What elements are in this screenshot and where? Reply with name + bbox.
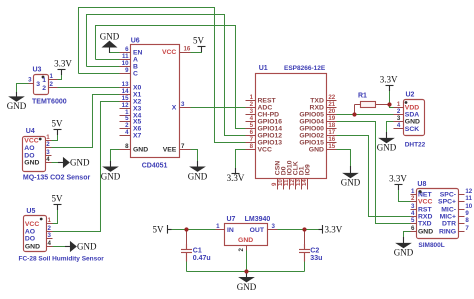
U8 pin 4 RXD xyxy=(410,215,416,217)
wire 5V to LM3940 IN xyxy=(171,228,215,230)
svg-text:GPIO15: GPIO15 xyxy=(299,139,324,146)
svg-text:3: 3 xyxy=(272,223,276,230)
ground below LM3940 xyxy=(237,271,257,292)
svg-text:3: 3 xyxy=(46,149,50,156)
ground below SIM800L xyxy=(394,237,414,258)
wire FC-28 GND xyxy=(52,245,71,247)
wire ground rail xyxy=(186,270,304,272)
svg-text:IO9: IO9 xyxy=(304,164,311,175)
wire EN to GND xyxy=(109,51,119,53)
svg-text:5: 5 xyxy=(250,122,254,129)
junction C1 to 5V rail xyxy=(184,227,188,231)
junction R1 to 3.3V net xyxy=(387,102,391,106)
wire C2 top lead xyxy=(303,229,305,246)
sensor U5 FC-28 xyxy=(23,215,46,251)
svg-text:AO: AO xyxy=(24,145,34,152)
wire LM3940 OUT to 3.3V xyxy=(277,228,318,230)
svg-text:U7: U7 xyxy=(227,216,236,223)
svg-text:GND: GND xyxy=(405,119,420,126)
svg-text:U8: U8 xyxy=(417,181,426,188)
svg-text:8: 8 xyxy=(465,217,469,224)
svg-text:22: 22 xyxy=(328,94,335,101)
svg-text:3.3V: 3.3V xyxy=(380,75,398,85)
svg-text:1: 1 xyxy=(50,73,54,80)
svg-text:SCK: SCK xyxy=(405,126,419,133)
power 3.3V above R1 xyxy=(380,75,398,91)
svg-text:GPIO00: GPIO00 xyxy=(299,125,324,132)
ground right of MQ-135 xyxy=(58,158,90,168)
svg-text:2: 2 xyxy=(397,108,401,115)
svg-text:5: 5 xyxy=(125,115,129,122)
junction GND rail xyxy=(244,269,248,273)
U1 pin 20 GPIO05 xyxy=(326,113,336,115)
U1 pin 21 RXD xyxy=(326,106,336,108)
svg-text:SDA: SDA xyxy=(405,112,419,119)
svg-text:RXD: RXD xyxy=(310,104,324,111)
svg-text:4: 4 xyxy=(48,240,52,247)
svg-text:4: 4 xyxy=(250,115,254,122)
svg-text:TXD: TXD xyxy=(418,221,432,228)
U6 pin 7 VEE xyxy=(179,148,190,150)
U8 pin 3 RST xyxy=(410,208,416,210)
wire CD4051 VCC to 5V xyxy=(190,46,201,52)
U1 pin 12 CLK xyxy=(294,178,296,189)
svg-text:VCC: VCC xyxy=(418,199,432,206)
svg-text:3: 3 xyxy=(28,77,32,84)
svg-text:13: 13 xyxy=(122,81,129,88)
svg-text:OUT: OUT xyxy=(250,227,265,234)
resistor R1 xyxy=(360,101,375,107)
wire CD4051 GND pin8 xyxy=(110,149,119,161)
capacitor C2 xyxy=(299,244,310,262)
svg-text:X0: X0 xyxy=(133,84,142,91)
wire MQ-135 AO to X1 xyxy=(51,94,119,147)
svg-text:12: 12 xyxy=(465,188,472,195)
svg-text:2: 2 xyxy=(125,122,129,129)
svg-text:3.3V: 3.3V xyxy=(227,173,245,183)
svg-text:C2: C2 xyxy=(310,248,319,255)
svg-text:X3: X3 xyxy=(133,105,142,112)
U1 pin 7 GPIO13 xyxy=(245,141,255,143)
svg-text:5V: 5V xyxy=(193,36,205,46)
U8 pin 6 GND xyxy=(410,230,416,232)
svg-text:7: 7 xyxy=(250,136,254,143)
svg-text:5V: 5V xyxy=(52,119,64,129)
U6 pin 4 X7 xyxy=(119,134,130,136)
svg-text:REST: REST xyxy=(258,97,277,104)
svg-text:CD4051: CD4051 xyxy=(142,162,168,169)
svg-text:X: X xyxy=(172,104,177,111)
U1 pin 22 TXD xyxy=(326,99,336,101)
svg-text:3: 3 xyxy=(411,203,415,210)
svg-text:U5: U5 xyxy=(26,208,35,215)
svg-text:TEMT6000: TEMT6000 xyxy=(32,98,67,105)
U1 pin 19 GPIO04 xyxy=(326,120,336,122)
U1 pin 18 GPIO00 xyxy=(326,127,336,129)
wire A pin segment xyxy=(95,58,119,60)
U1 pin 5 GPIO14 xyxy=(245,127,255,129)
power 3.3V below ESP VCC xyxy=(227,168,245,183)
U6 pin 5 X5 xyxy=(119,120,130,122)
ground below CD4051 VEE xyxy=(188,161,208,181)
wire CD4051 VEE pin7 xyxy=(190,149,197,161)
U1 pin 6 GPIO12 xyxy=(245,134,255,136)
svg-text:VDD: VDD xyxy=(405,105,419,112)
svg-text:3: 3 xyxy=(48,232,52,239)
svg-text:1: 1 xyxy=(42,77,46,84)
junction R1 to SDA net xyxy=(352,112,356,116)
wire SIM800L GND xyxy=(403,231,410,237)
svg-text:DO: DO xyxy=(24,152,34,159)
svg-text:DTR: DTR xyxy=(442,221,456,228)
U8 pin 11 SPC+ xyxy=(458,200,464,202)
svg-text:VEE: VEE xyxy=(163,147,177,154)
module U8 SIM800L xyxy=(416,188,458,238)
svg-text:2: 2 xyxy=(48,225,52,232)
U6 pin 16 VCC xyxy=(179,51,190,53)
wire GPIO05 to DHT SDA xyxy=(336,113,393,115)
svg-text:14: 14 xyxy=(301,179,308,186)
wire TEMT6000 pin3 to GND xyxy=(16,83,28,92)
svg-text:GPIO14: GPIO14 xyxy=(258,125,283,132)
svg-text:GPIO04: GPIO04 xyxy=(299,118,324,125)
multiplexer U6 CD4051 xyxy=(130,44,179,157)
svg-text:LM3940: LM3940 xyxy=(245,216,271,223)
svg-text:C1: C1 xyxy=(193,248,202,255)
U1 pin 8 VCC xyxy=(245,148,255,150)
svg-text:1: 1 xyxy=(216,223,220,230)
svg-text:GND: GND xyxy=(418,229,433,236)
U6 pin 1 X4 xyxy=(119,114,130,116)
U6 pin 3 X xyxy=(179,106,190,108)
svg-text:2: 2 xyxy=(42,85,46,92)
power port 5V at regulator input xyxy=(153,224,172,234)
ground below ESP pin15 xyxy=(341,166,361,188)
svg-text:RING: RING xyxy=(439,229,456,236)
svg-text:11: 11 xyxy=(465,195,472,202)
svg-text:5V: 5V xyxy=(52,194,64,204)
svg-text:X5: X5 xyxy=(133,118,142,125)
U1 pin 4 GPIO16 xyxy=(245,120,255,122)
svg-text:GND: GND xyxy=(237,282,257,292)
U1 pin 3 CH-PD xyxy=(245,113,255,115)
svg-text:C: C xyxy=(133,70,138,77)
svg-text:6: 6 xyxy=(250,129,254,136)
wire C1 bottom lead xyxy=(185,261,187,271)
svg-text:GND: GND xyxy=(394,248,414,258)
svg-text:FC-28 Soil Humidity Sensor: FC-28 Soil Humidity Sensor xyxy=(19,255,105,262)
U6 pin 15 X2 xyxy=(119,100,130,102)
svg-text:U2: U2 xyxy=(406,91,415,98)
U6 pin 11 A xyxy=(119,58,130,60)
wire GPIO04 to SIM800L TXD xyxy=(336,121,410,223)
U1 pin 13 D1 xyxy=(300,178,302,189)
svg-text:2: 2 xyxy=(250,101,254,108)
svg-text:10: 10 xyxy=(465,203,472,210)
svg-text:GND: GND xyxy=(77,242,97,252)
U1 pin 14 IO9 xyxy=(306,178,308,189)
U8 pin 5 TXD xyxy=(410,222,416,224)
svg-text:IN: IN xyxy=(227,227,234,234)
svg-text:7: 7 xyxy=(181,143,185,150)
svg-text:GND: GND xyxy=(309,146,324,153)
svg-text:2: 2 xyxy=(238,248,245,252)
U1 pin 15 GND xyxy=(326,148,336,150)
svg-text:GPIO02: GPIO02 xyxy=(299,132,324,139)
wire CD4051 B to ESP GPIO12 xyxy=(86,14,245,135)
svg-text:1: 1 xyxy=(397,101,401,108)
U1 pin 2 ADC xyxy=(245,106,255,108)
svg-text:ESP8266-12E: ESP8266-12E xyxy=(284,65,326,72)
svg-text:U4: U4 xyxy=(26,128,35,135)
U8 pin 1 NET xyxy=(410,193,416,195)
power 5V above FC-28 xyxy=(52,194,64,210)
svg-text:19: 19 xyxy=(328,115,335,122)
svg-text:3: 3 xyxy=(250,108,254,115)
svg-text:VCC: VCC xyxy=(258,146,272,153)
svg-text:8: 8 xyxy=(125,143,129,150)
svg-text:18: 18 xyxy=(328,122,335,129)
svg-text:4: 4 xyxy=(397,122,401,129)
regulator U7 LM3940 xyxy=(224,223,267,245)
U8 pin 10 MIC- xyxy=(458,208,464,210)
svg-text:GND: GND xyxy=(7,101,27,111)
svg-text:TXD: TXD xyxy=(310,97,324,104)
svg-text:GND: GND xyxy=(100,32,120,42)
wire ESP GND pin15 xyxy=(336,149,350,166)
wire MQ-135 VCC to 5V xyxy=(51,129,57,140)
ground right of FC-28 xyxy=(65,242,97,252)
svg-text:GPIO16: GPIO16 xyxy=(258,118,283,125)
svg-text:4: 4 xyxy=(411,210,415,217)
U6 pin 14 X1 xyxy=(119,93,130,95)
wire FC-28 AO to X2 xyxy=(52,101,119,231)
wire ESP VCC to 3.3V xyxy=(235,149,245,173)
junction C2 to 3.3V rail xyxy=(302,227,306,231)
svg-text:SIM800L: SIM800L xyxy=(418,242,444,249)
svg-text:GND: GND xyxy=(188,171,208,181)
svg-text:20: 20 xyxy=(328,108,335,115)
power 3.3V above TEMT6000 xyxy=(54,59,72,75)
svg-text:EN: EN xyxy=(133,49,143,56)
wire TEMT6000 out to X0 xyxy=(57,86,119,88)
U1 pin 9 CSN xyxy=(276,178,278,189)
svg-text:DHT22: DHT22 xyxy=(405,142,426,149)
U1 pin 1 REST xyxy=(245,99,255,101)
wire R1 left leg down xyxy=(353,104,355,114)
sensor U2 DHT22 xyxy=(403,99,424,135)
U1 pin 16 GPIO15 xyxy=(326,141,336,143)
svg-text:1: 1 xyxy=(250,94,254,101)
U6 pin 10 B xyxy=(119,65,130,67)
U6 pin 12 X3 xyxy=(119,107,130,109)
svg-text:1: 1 xyxy=(411,188,415,195)
ground below DHT22 xyxy=(377,132,397,153)
svg-text:VCC: VCC xyxy=(24,138,38,145)
svg-text:3: 3 xyxy=(36,81,40,88)
svg-text:GPIO05: GPIO05 xyxy=(299,111,324,118)
svg-text:0.47u: 0.47u xyxy=(193,255,211,262)
U8 pin 12 SPC- xyxy=(458,193,464,195)
U6 pin 8 GND xyxy=(119,148,130,150)
svg-text:7: 7 xyxy=(465,225,469,232)
wire 3.3V to SIM800L VCC xyxy=(398,184,410,201)
U1 pin 10 D0 xyxy=(282,178,284,189)
ground below TEMT6000 xyxy=(7,92,27,111)
svg-text:GND: GND xyxy=(25,243,40,250)
svg-text:U1: U1 xyxy=(259,65,268,72)
svg-text:X1: X1 xyxy=(133,91,142,98)
svg-text:2: 2 xyxy=(46,141,50,148)
svg-text:8: 8 xyxy=(250,143,254,150)
svg-text:A: A xyxy=(133,56,138,63)
U8 pin 7 RING xyxy=(458,230,464,232)
svg-text:5V: 5V xyxy=(153,224,165,234)
module U1 ESP8266-12E xyxy=(255,73,326,178)
svg-text:15: 15 xyxy=(122,95,129,102)
U8 pin 2 VCC xyxy=(410,200,416,202)
svg-text:MIC-: MIC- xyxy=(441,207,456,214)
svg-text:1: 1 xyxy=(46,134,50,141)
svg-text:GND: GND xyxy=(133,147,148,154)
svg-text:17: 17 xyxy=(328,129,335,136)
svg-text:4: 4 xyxy=(125,129,129,136)
svg-text:GPIO12: GPIO12 xyxy=(258,132,283,139)
svg-text:21: 21 xyxy=(328,101,335,108)
svg-text:GND: GND xyxy=(377,143,397,153)
ground below CD4051 pin8 xyxy=(101,161,121,181)
U6 pin 9 C xyxy=(119,72,130,74)
svg-text:4: 4 xyxy=(46,156,50,163)
svg-text:33u: 33u xyxy=(310,255,322,262)
power 5V above MQ-135 xyxy=(52,119,64,135)
svg-text:11: 11 xyxy=(122,53,129,60)
U1 pin 11 IO10 xyxy=(288,178,290,189)
U6 pin 2 X6 xyxy=(119,127,130,129)
svg-text:10: 10 xyxy=(122,60,129,67)
svg-text:X7: X7 xyxy=(133,132,142,139)
svg-text:2: 2 xyxy=(411,195,415,202)
svg-text:5: 5 xyxy=(411,217,415,224)
wire GPIO02 to SIM800L RXD xyxy=(336,135,410,216)
svg-text:6: 6 xyxy=(411,225,415,232)
svg-text:2: 2 xyxy=(50,81,54,88)
svg-text:DO: DO xyxy=(25,236,35,243)
svg-text:U3: U3 xyxy=(33,67,42,74)
svg-text:GND: GND xyxy=(70,158,90,168)
svg-text:X2: X2 xyxy=(133,98,142,105)
U1 pin 17 GPIO02 xyxy=(326,134,336,136)
sensor U3 TEMT6000 xyxy=(33,74,48,94)
svg-text:15: 15 xyxy=(328,143,335,150)
svg-text:9: 9 xyxy=(465,210,469,217)
svg-text:6: 6 xyxy=(125,46,129,53)
svg-text:RXD: RXD xyxy=(418,214,432,221)
svg-text:GND: GND xyxy=(24,160,39,167)
svg-text:MIC+: MIC+ xyxy=(440,214,456,221)
svg-text:3.3V: 3.3V xyxy=(54,59,72,69)
svg-text:GND: GND xyxy=(101,171,121,181)
wire C2 bottom lead xyxy=(303,261,305,271)
sensor U4 MQ-135 xyxy=(22,136,45,171)
svg-text:12: 12 xyxy=(122,102,129,109)
wire 3.3V to DHT VDD xyxy=(389,85,393,107)
power port 3.3V at regulator output xyxy=(318,224,342,234)
wire C1 top lead xyxy=(185,229,187,246)
svg-text:GND: GND xyxy=(238,237,253,244)
power 3.3V above SIM800L xyxy=(389,174,407,190)
wire CD4051 A to ESP GPIO14 xyxy=(95,25,245,128)
svg-text:AO: AO xyxy=(25,228,35,235)
svg-text:ADC: ADC xyxy=(258,104,273,111)
svg-text:1: 1 xyxy=(48,217,52,224)
svg-text:RST: RST xyxy=(418,207,432,214)
svg-text:NET: NET xyxy=(418,192,432,199)
wire DHT GND xyxy=(386,121,393,132)
power 5V above CD4051 VCC xyxy=(193,36,205,52)
wire C pin segment xyxy=(78,72,119,74)
wire B pin segment xyxy=(86,65,119,67)
svg-text:SPC-: SPC- xyxy=(440,192,456,199)
wire TEMT6000 VCC to 3.3V xyxy=(57,69,61,79)
svg-text:3: 3 xyxy=(181,101,185,108)
U6 pin 6 EN xyxy=(119,51,130,53)
svg-text:GND: GND xyxy=(341,178,361,188)
svg-text:VCC: VCC xyxy=(25,221,39,228)
wire LM3940 GND pin to rail xyxy=(245,250,247,271)
svg-text:3.3V: 3.3V xyxy=(325,224,343,234)
svg-text:U6: U6 xyxy=(131,37,140,44)
U8 pin 8 DTR xyxy=(458,222,464,224)
svg-text:14: 14 xyxy=(122,88,129,95)
svg-text:MQ-135 CO2 Sensor: MQ-135 CO2 Sensor xyxy=(23,174,91,181)
svg-text:16: 16 xyxy=(184,46,191,53)
svg-text:9: 9 xyxy=(125,67,129,74)
svg-text:B: B xyxy=(133,63,138,70)
capacitor C1 xyxy=(181,244,192,262)
U8 pin 9 MIC+ xyxy=(458,215,464,217)
ground above CD4051 EN xyxy=(100,32,120,53)
svg-text:CH-PD: CH-PD xyxy=(258,111,280,118)
svg-text:3: 3 xyxy=(397,115,401,122)
U6 pin 13 X0 xyxy=(119,86,130,88)
wire X to ADC xyxy=(190,106,245,108)
svg-text:16: 16 xyxy=(328,136,335,143)
svg-text:GPIO13: GPIO13 xyxy=(258,139,283,146)
wire FC-28 VCC to 5V xyxy=(52,204,57,223)
wire CD4051 C to ESP GPIO13 xyxy=(78,7,245,142)
svg-text:VCC: VCC xyxy=(162,49,176,56)
svg-text:X6: X6 xyxy=(133,125,142,132)
svg-text:SPC+: SPC+ xyxy=(438,199,456,206)
svg-text:R1: R1 xyxy=(358,93,367,100)
wire MQ-135 GND xyxy=(51,161,64,163)
svg-text:3.3V: 3.3V xyxy=(389,174,407,184)
